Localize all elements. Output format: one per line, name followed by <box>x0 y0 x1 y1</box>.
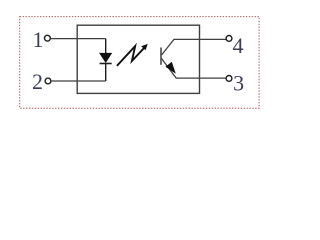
Q1 emitter arrow head <box>165 62 175 74</box>
dotted red outline border <box>20 17 259 109</box>
pin 2 terminal circle <box>45 78 51 84</box>
LED D1 cathode bar <box>100 63 112 65</box>
pin 1 terminal circle <box>45 35 51 41</box>
optocoupler body rectangle <box>77 25 199 93</box>
svg-text:2: 2 <box>32 69 43 94</box>
svg-text:1: 1 <box>33 27 44 52</box>
wire pin2 to LED cathode <box>51 80 106 82</box>
Q1 collector and wire to pin 4 <box>162 39 227 55</box>
svg-text:3: 3 <box>233 71 244 96</box>
pin 3 terminal circle <box>226 76 232 82</box>
LED D1 cathode lead <box>105 64 107 82</box>
Q1 emitter and wire to pin 3 <box>162 59 227 79</box>
pin 4 terminal circle <box>226 36 232 42</box>
wire pin1 to LED anode <box>50 38 105 40</box>
svg-text:4: 4 <box>233 33 244 58</box>
phototransistor Q1 base bar <box>160 48 162 65</box>
light emission zigzag arrow <box>117 46 145 66</box>
LED D1 anode lead <box>105 39 107 54</box>
LED D1 triangle <box>100 53 112 62</box>
light arrow head <box>141 44 148 50</box>
